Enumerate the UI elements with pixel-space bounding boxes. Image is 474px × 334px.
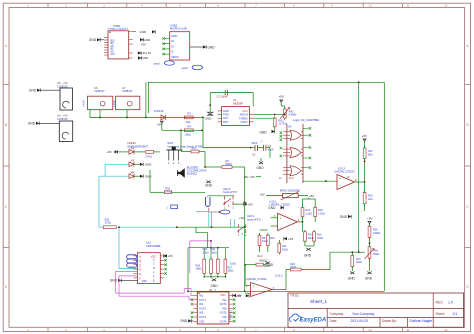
svg-text:Sullivan Nagler: Sullivan Nagler xyxy=(410,319,434,323)
svg-text:+5V: +5V xyxy=(259,193,264,197)
svg-text:Logic_OR_CD4075BE: Logic_OR_CD4075BE xyxy=(293,118,319,122)
svg-text:+5V: +5V xyxy=(237,294,242,298)
svg-text:+: + xyxy=(280,217,282,221)
svg-text:IN1: IN1 xyxy=(199,294,204,298)
svg-text:GND: GND xyxy=(340,215,348,219)
svg-text:1N4148: 1N4148 xyxy=(154,109,164,113)
svg-text:TITLE:: TITLE: xyxy=(290,294,300,298)
svg-text:9kΩ: 9kΩ xyxy=(368,153,373,156)
svg-text:+5V: +5V xyxy=(168,254,173,258)
svg-text:A12: A12 xyxy=(111,53,116,56)
svg-text:D+: D+ xyxy=(171,44,175,48)
svg-text:OUT5: OUT5 xyxy=(220,311,227,315)
svg-text:270Ω: 270Ω xyxy=(165,189,171,193)
svg-text:GND: GND xyxy=(171,34,177,38)
svg-text:68nF: 68nF xyxy=(252,141,258,145)
svg-text:VSS: VSS xyxy=(142,279,147,283)
svg-text:1kΩ: 1kΩ xyxy=(368,198,373,201)
svg-text:C208137: C208137 xyxy=(94,89,105,93)
svg-text:10kΩ: 10kΩ xyxy=(203,251,209,254)
svg-text:U13.2: U13.2 xyxy=(275,273,283,277)
svg-text:OUT1: OUT1 xyxy=(199,298,206,302)
svg-text:D-: D- xyxy=(171,50,174,54)
svg-text:VCC: VCC xyxy=(242,109,248,113)
svg-text:REV:: REV: xyxy=(436,301,444,305)
svg-text:1.0: 1.0 xyxy=(448,301,453,305)
svg-text:0.5MΩ: 0.5MΩ xyxy=(289,113,297,117)
svg-text:MICRO-5-AJB: MICRO-5-AJB xyxy=(170,26,187,30)
svg-text:D: D xyxy=(139,269,141,272)
svg-text:+5V: +5V xyxy=(248,202,253,206)
svg-text:10: 10 xyxy=(368,328,372,332)
svg-text:C208135: C208135 xyxy=(57,117,68,121)
svg-text:−: − xyxy=(339,184,341,188)
svg-text:GND: GND xyxy=(348,277,356,281)
svg-text:11: 11 xyxy=(406,328,409,332)
svg-text:22Ω: 22Ω xyxy=(186,120,191,124)
svg-text:10kΩ: 10kΩ xyxy=(185,133,191,137)
svg-text:40kΩ: 40kΩ xyxy=(356,261,362,264)
svg-text:GND: GND xyxy=(208,46,216,50)
svg-text:GND: GND xyxy=(260,131,268,135)
svg-text:GND: GND xyxy=(180,319,188,323)
svg-text:GND: GND xyxy=(210,284,218,288)
svg-text:+5V: +5V xyxy=(367,217,372,221)
svg-text:IN4: IN4 xyxy=(222,298,227,302)
svg-text:IN5: IN5 xyxy=(222,306,227,310)
svg-text:C: C xyxy=(139,264,141,267)
svg-text:11: 11 xyxy=(406,4,409,8)
svg-text:NE555P: NE555P xyxy=(233,101,243,105)
svg-text:Date:: Date: xyxy=(330,319,338,323)
svg-text:GND: GND xyxy=(142,56,150,60)
svg-text:12: 12 xyxy=(444,4,448,8)
svg-text:+5V: +5V xyxy=(239,216,244,220)
svg-text:VSS: VSS xyxy=(199,319,204,323)
svg-text:U4: U4 xyxy=(209,288,213,292)
svg-text:+5V: +5V xyxy=(157,122,162,126)
svg-text:LM324N_C70520: LM324N_C70520 xyxy=(334,170,355,174)
svg-text:): ) xyxy=(167,206,168,210)
svg-text:OUT4: OUT4 xyxy=(220,302,227,306)
svg-text:+1.5V: +1.5V xyxy=(112,100,116,107)
svg-text:47µF: 47µF xyxy=(268,148,274,152)
svg-text:RQ34(C): RQ34(C) xyxy=(187,171,198,175)
svg-text:GND: GND xyxy=(145,175,153,179)
svg-text:+: + xyxy=(253,285,255,289)
svg-text:DISCH: DISCH xyxy=(240,113,248,117)
svg-text:GND: GND xyxy=(29,89,37,93)
svg-text:10kΩ: 10kΩ xyxy=(282,248,288,251)
svg-text:EasyEDA: EasyEDA xyxy=(300,318,327,324)
svg-text:270Ω: 270Ω xyxy=(146,155,152,159)
svg-text:GND: GND xyxy=(145,163,153,167)
svg-text:OUT3: OUT3 xyxy=(199,315,206,319)
svg-text:TPM4-12: TPM4-12 xyxy=(230,309,233,320)
svg-text:10kΩ: 10kΩ xyxy=(196,267,202,270)
svg-text:12.7kΩ: 12.7kΩ xyxy=(279,122,287,126)
svg-text:IN3: IN3 xyxy=(199,311,204,315)
svg-text:Sheet_1: Sheet_1 xyxy=(310,299,328,304)
svg-text:pwtcl: pwtcl xyxy=(154,62,160,66)
svg-text:pwtcl: pwtcl xyxy=(182,66,188,70)
svg-text:OUT6: OUT6 xyxy=(220,319,227,323)
svg-text:R3: R3 xyxy=(188,112,192,116)
svg-text:GND: GND xyxy=(223,109,229,113)
svg-text:GND: GND xyxy=(365,277,373,281)
svg-text:R10: R10 xyxy=(270,237,275,240)
svg-text:C208137: C208137 xyxy=(122,89,133,93)
svg-text:+5V: +5V xyxy=(279,95,284,99)
svg-text:THRES: THRES xyxy=(239,116,248,120)
svg-text:1.2kΩ: 1.2kΩ xyxy=(305,213,312,216)
svg-text:GND: GND xyxy=(205,184,213,188)
svg-text:+5V: +5V xyxy=(288,237,293,241)
svg-text:OUT2: OUT2 xyxy=(199,306,206,310)
svg-text:150kΩ: 150kΩ xyxy=(373,232,380,235)
svg-text:TRIG: TRIG xyxy=(223,113,229,117)
svg-text:Company:: Company: xyxy=(330,312,345,316)
svg-text:−: − xyxy=(253,292,255,296)
svg-text:button4"6"8: button4"6"8 xyxy=(223,190,237,194)
svg-text:2.2kΩ: 2.2kΩ xyxy=(318,213,325,216)
svg-text:VBUS: VBUS xyxy=(171,55,179,59)
svg-text:C2: C2 xyxy=(252,152,256,156)
svg-text:+5V: +5V xyxy=(107,150,112,154)
svg-text:button4"6"8: button4"6"8 xyxy=(247,217,261,221)
svg-text:LM324N_C70520: LM324N_C70520 xyxy=(246,277,267,281)
svg-text:+: + xyxy=(261,139,263,143)
svg-text:+5V: +5V xyxy=(141,42,146,46)
svg-text:VCC: VCC xyxy=(289,177,294,180)
svg-text:10kΩ: 10kΩ xyxy=(290,266,296,269)
svg-text:CD40106BE: CD40106BE xyxy=(146,244,161,248)
svg-text:U9: U9 xyxy=(288,125,292,129)
svg-text:IN6: IN6 xyxy=(222,315,227,319)
svg-text:RST: RST xyxy=(223,120,229,124)
svg-text:10kΩ: 10kΩ xyxy=(317,237,323,240)
svg-text:270Ω: 270Ω xyxy=(105,221,111,225)
svg-text:GND: GND xyxy=(140,30,148,34)
svg-text:10kΩ: 10kΩ xyxy=(262,240,268,243)
svg-text:50kΩ: 50kΩ xyxy=(373,253,379,256)
svg-text:C3 100nF: C3 100nF xyxy=(217,95,229,99)
svg-text:+5V: +5V xyxy=(250,175,255,179)
svg-text:10kΩ: 10kΩ xyxy=(230,263,236,266)
svg-text:2021-04-03: 2021-04-03 xyxy=(351,319,368,323)
svg-text:Your Company: Your Company xyxy=(352,312,375,316)
svg-text:+: + xyxy=(339,177,341,181)
svg-text:GND: GND xyxy=(110,279,118,283)
svg-text:CONT: CONT xyxy=(240,120,248,124)
svg-text:+1.5V: +1.5V xyxy=(82,100,86,107)
svg-text:IN2: IN2 xyxy=(199,302,204,306)
svg-text:−: − xyxy=(280,226,282,230)
svg-text:+5V: +5V xyxy=(362,134,367,138)
svg-text:Sheet:: Sheet: xyxy=(436,312,445,316)
svg-text:GND: GND xyxy=(268,206,276,210)
svg-text:1/1: 1/1 xyxy=(453,312,458,316)
svg-text:R4: R4 xyxy=(188,125,192,129)
svg-text:GND: GND xyxy=(89,38,97,42)
svg-text:59kΩ: 59kΩ xyxy=(226,162,232,166)
svg-text:GND: GND xyxy=(205,116,213,120)
svg-text:10kΩ: 10kΩ xyxy=(211,251,217,254)
svg-text:12: 12 xyxy=(444,328,448,332)
svg-text:GND: GND xyxy=(304,253,312,257)
svg-text:+5V+5V: +5V+5V xyxy=(141,51,151,55)
svg-text:+5V: +5V xyxy=(243,175,248,179)
svg-text:MHP5050RGBDT: MHP5050RGBDT xyxy=(128,144,149,148)
svg-text:C: C xyxy=(153,263,155,266)
svg-text:470: 470 xyxy=(192,146,197,150)
svg-text:10: 10 xyxy=(368,4,372,8)
svg-text:GND: GND xyxy=(266,263,274,267)
svg-text:GND: GND xyxy=(256,166,264,170)
svg-text:GND: GND xyxy=(28,122,36,126)
svg-text:+5V: +5V xyxy=(309,194,314,198)
svg-text:OUT: OUT xyxy=(223,116,229,120)
svg-text:ID: ID xyxy=(171,39,174,43)
svg-text:Drawn By:: Drawn By: xyxy=(382,319,397,323)
svg-text:10kΩ: 10kΩ xyxy=(228,269,234,272)
svg-text:VDC: VDC xyxy=(220,293,226,297)
